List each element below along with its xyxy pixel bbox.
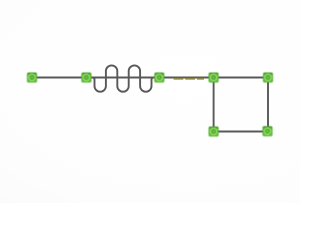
wire node4-node5 [214,77,268,79]
node 3 [155,73,165,83]
node 6 [209,127,219,137]
resistor squiggle (meander) between node2 and node3 [92,65,155,91]
dashed yellow highlight under wire node3-node4 [174,77,204,79]
node 5 [263,73,273,83]
wire node2-node3 (straight, passes through resistor squiggle) [86,77,159,79]
wire node1-node2 [32,77,86,79]
node 2 [82,73,92,83]
wire node6-node7 (bottom) [214,131,268,133]
node 4 [209,73,219,83]
node 1 [27,73,37,83]
wire node4-node6 (left vertical) [213,78,215,132]
wire node5-node7 (right vertical) [267,78,269,132]
wire node3-node4 [159,77,213,79]
node 7 [263,126,273,136]
